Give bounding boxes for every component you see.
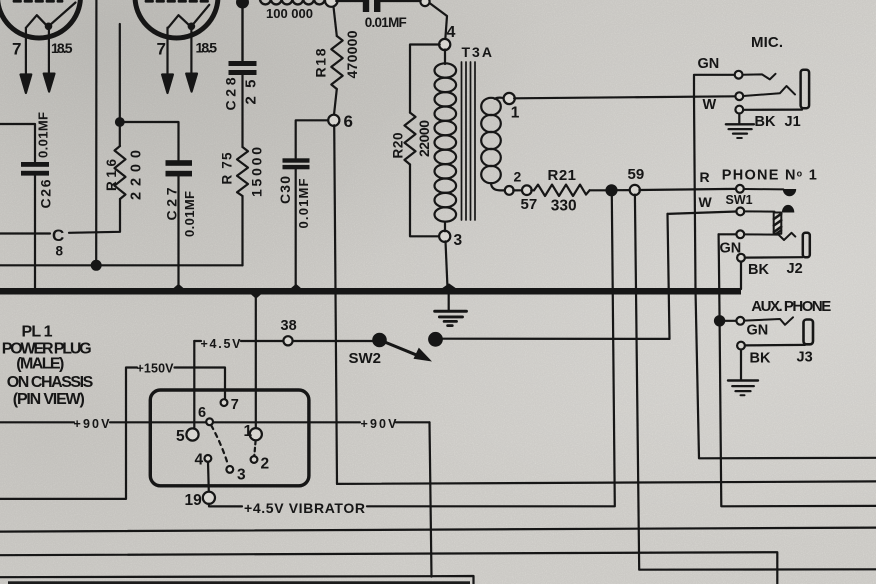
PHONE1 plug insulated shaft (hatched) [774, 213, 782, 234]
AUX jack J3 sleeve [804, 320, 814, 345]
tube V2 pin 7 lead with arrow [162, 28, 173, 93]
scan edge band at bottom [8, 581, 470, 584]
svg-text:1: 1 [511, 105, 520, 122]
svg-text:GN: GN [720, 241, 742, 257]
bus junction bump (C30 line) [290, 284, 302, 289]
PHONE1 GN wire to corner [719, 233, 737, 235]
svg-text:0.01MF: 0.01MF [296, 178, 311, 228]
MIC ground symbol [726, 114, 754, 139]
svg-text:GN: GN [747, 323, 769, 339]
bus junction bump (T3A node 3 line) [441, 283, 457, 289]
wire AVC line to connector C [0, 232, 50, 234]
resistor R21 [534, 185, 590, 196]
node 6 terminal circle [328, 115, 339, 126]
long wire bottom rail 4 with drop [0, 576, 474, 584]
svg-text:8: 8 [56, 243, 64, 258]
chassis ground symbol under bus [435, 295, 467, 326]
svg-text:470000: 470000 [344, 30, 360, 78]
svg-text:100 000: 100 000 [266, 6, 313, 21]
PHONE1 R contact arm [744, 188, 784, 190]
long wire to right edge (lower run 1) [337, 481, 876, 484]
wire node 1 to MIC W contact [514, 96, 735, 98]
svg-text:4: 4 [195, 451, 204, 468]
svg-text:GN: GN [698, 56, 720, 72]
wire +90V down to bottom rail [430, 422, 432, 576]
svg-text:SW2: SW2 [349, 350, 382, 367]
MIC W terminal circle [735, 92, 743, 100]
svg-text:2: 2 [261, 455, 270, 472]
tube V1 pin 7 lead with arrow [21, 28, 32, 93]
capacitor C30 [283, 158, 310, 169]
svg-text:+4.5V: +4.5V [201, 337, 242, 351]
wire node 4 to R20 [410, 45, 440, 113]
junction dot R16/C27 [116, 118, 124, 126]
svg-text:3: 3 [454, 232, 463, 249]
svg-text:15000: 15000 [249, 147, 265, 197]
wire tube V2 region down to R16 dot [119, 24, 121, 122]
transformer T3A primary winding [435, 50, 457, 232]
node 57 terminal circle [522, 185, 532, 195]
node 2 terminal circle [505, 186, 514, 195]
PHONE1 BK terminal circle [737, 254, 745, 262]
pin 1 circle [250, 428, 262, 440]
wire R20 to node 3 [410, 165, 440, 237]
svg-text:+150V: +150V [137, 361, 175, 375]
node 59 terminal circle [630, 185, 640, 195]
chassis ground bus (thick) [0, 288, 741, 295]
svg-text:ON CHASSIS: ON CHASSIS [7, 374, 94, 391]
svg-text:7: 7 [12, 40, 21, 59]
svg-text:0.01MF: 0.01MF [36, 112, 51, 158]
resistor R20 [405, 113, 416, 165]
PHONE1 jack J2 sleeve [803, 233, 810, 257]
wire R16 top to junction dot [119, 122, 121, 146]
tube V1 pin 18.5 lead with arrow [44, 27, 55, 92]
wire dot to C27 [120, 122, 179, 160]
svg-text:C: C [52, 226, 64, 245]
wire junction down to vibrator line [612, 195, 615, 505]
svg-text:BK: BK [748, 262, 769, 278]
wire R18 to node 6 [334, 89, 337, 115]
svg-text:SW1: SW1 [726, 193, 753, 207]
svg-text:R 75: R 75 [220, 152, 235, 184]
PHONE1 plug barrel contact (solid) [782, 205, 794, 213]
AUX GN contact arm [744, 317, 793, 325]
svg-text:C27: C27 [164, 187, 180, 220]
svg-text:PHONE No 1: PHONE No 1 [722, 168, 817, 184]
wire +4.5V rail [194, 340, 374, 342]
pin 3 circle [226, 466, 233, 473]
wire node1/mic junction down and out right [694, 97, 876, 459]
tube V1 filament [26, 3, 76, 29]
wire pin 19 to vibrator rail [209, 504, 242, 507]
tube V1 grid (dashed, cut at top) [14, 0, 62, 3]
svg-text:BK: BK [750, 350, 771, 366]
wire to C26 [0, 124, 35, 162]
wire node 3 to chassis bus [446, 241, 448, 288]
wire junction to node 59 [617, 189, 631, 191]
resistor R16 [115, 146, 126, 199]
svg-text:W: W [699, 194, 713, 210]
svg-text:57: 57 [521, 196, 538, 213]
svg-text:1: 1 [244, 423, 253, 440]
node junction dot on AVC wire [92, 261, 101, 270]
svg-text:C26: C26 [38, 179, 54, 208]
svg-text:5: 5 [176, 428, 185, 445]
MIC W contact arm [743, 86, 795, 96]
capacitor C27 [166, 160, 193, 176]
wire node 59 down and out right [635, 195, 876, 570]
svg-text:C30: C30 [277, 176, 293, 204]
wire SW2 contact to SW1 line [442, 338, 670, 340]
wire node to R18 [334, 7, 337, 36]
node terminal circle at top [325, 0, 338, 7]
svg-text:3: 3 [237, 466, 246, 483]
svg-text:0.01MF: 0.01MF [365, 15, 407, 30]
wire R21 to junction [590, 189, 607, 191]
svg-text:C28: C28 [223, 77, 239, 110]
svg-text:22000: 22000 [416, 120, 432, 157]
svg-text:6: 6 [344, 112, 353, 131]
svg-text:W: W [703, 97, 717, 113]
AUX ground symbol [728, 350, 758, 396]
PHONE1 W wire [668, 212, 737, 214]
wire node 59 to phone jack R contact [639, 189, 736, 190]
svg-text:PL 1: PL 1 [22, 324, 53, 341]
long wire bottom rail 2 [0, 528, 876, 532]
wire C28 to R75 [241, 75, 243, 147]
svg-text:4: 4 [447, 24, 456, 41]
wire +150V rail [0, 368, 225, 499]
resistor R75 [237, 147, 248, 196]
tube V2 envelope [135, 0, 218, 38]
wire node 2 to node 57 [513, 189, 522, 191]
svg-text:J1: J1 [785, 114, 801, 130]
svg-text:R: R [700, 169, 710, 185]
resistor 100000 (cut at top edge) [260, 0, 325, 4]
wire C27 to chassis bus [177, 176, 179, 291]
wire +90V rail [0, 421, 430, 423]
svg-text:J2: J2 [787, 261, 803, 277]
pin 19 circle [203, 492, 215, 504]
wire terminal to node 4 [430, 3, 448, 39]
wire R75 to AVC bus [241, 196, 243, 265]
svg-text:18.5: 18.5 [51, 40, 73, 56]
MIC BK terminal circle [735, 106, 743, 114]
node 38 terminal circle [283, 336, 292, 345]
svg-text:0.01MF: 0.01MF [182, 191, 197, 237]
svg-text:T3A: T3A [462, 44, 494, 60]
long wire bottom rail 3 with drop [0, 552, 777, 584]
svg-text:7: 7 [231, 397, 239, 413]
svg-text:(MALE): (MALE) [16, 356, 64, 373]
switch SW2 contact dot [429, 333, 442, 346]
AUX junction dot [715, 316, 724, 325]
dashed link pin6-pin3 [211, 425, 228, 465]
transformer T3A secondary winding [481, 98, 504, 191]
wire top cap to plate node [336, 0, 420, 2]
transformer T3A core [462, 62, 476, 220]
pin 5 circle [186, 428, 198, 440]
junction dot 57-line [607, 185, 617, 195]
pin 4 circle [205, 455, 212, 462]
tube V1 envelope [0, 0, 81, 38]
wire +4.5V down to pin 5 [193, 341, 195, 428]
wire C30 to chassis bus [295, 169, 297, 291]
wire AUX junction to GN [724, 320, 736, 322]
tube V2 filament [168, 5, 209, 29]
svg-text:J3: J3 [797, 349, 813, 365]
svg-text:18.5: 18.5 [196, 40, 218, 56]
svg-text:R20: R20 [391, 133, 406, 159]
pin 2 circle [251, 456, 258, 463]
resistor R18 [331, 36, 342, 89]
node 1 terminal circle [504, 93, 515, 104]
svg-text:7: 7 [157, 40, 166, 59]
switch SW2 lever arrow [381, 341, 432, 362]
PHONE1 GN contact arm [744, 233, 795, 240]
AUX BK terminal circle [737, 342, 745, 350]
switch SW2 pivot dot [373, 334, 385, 346]
PHONE1 R terminal circle [736, 185, 744, 193]
wire C26 to chassis bus [34, 176, 36, 291]
dashed link pin1-pin2 [254, 441, 255, 456]
AUX BK wire to sleeve [745, 344, 805, 347]
PHONE1 BK wire to sleeve [745, 256, 802, 259]
svg-text:AUX. PHONE: AUX. PHONE [751, 298, 831, 315]
svg-text:(PIN VIEW): (PIN VIEW) [13, 391, 85, 408]
node 4 terminal circle [439, 39, 450, 50]
svg-text:MIC.: MIC. [751, 34, 783, 51]
MIC GN contact arm [743, 74, 776, 80]
pin 6 circle [206, 418, 213, 425]
terminal circle at top edge [420, 0, 429, 6]
svg-text:R16: R16 [104, 159, 119, 191]
wire MIC GN branch [694, 75, 735, 97]
wire node 57 to R21 [531, 189, 534, 191]
PHONE1 BK wire to chassis bus [740, 262, 742, 289]
svg-text:BK: BK [755, 114, 776, 130]
AVC bus wire [0, 264, 243, 266]
coupling capacitor 0.01MF at top [363, 0, 381, 12]
wire bus to pin 1 [255, 295, 257, 428]
tube V2 grid (dashed, cut at top) [146, 0, 210, 3]
capacitor C28 [229, 61, 257, 75]
wire J2 sleeve-GN down through AUX junction and out right [719, 234, 876, 506]
MIC GN terminal circle [735, 71, 743, 79]
bus junction bump (pin 1 line, below) [250, 294, 262, 299]
svg-text:330: 330 [551, 198, 577, 215]
PHONE1 GN terminal circle [736, 230, 744, 238]
svg-text:2: 2 [514, 168, 522, 184]
svg-text:6: 6 [198, 405, 206, 421]
wire vibrator rail to 57 junction riser [367, 505, 615, 507]
wire between tubes down to junction [95, 0, 97, 263]
wire node 6 down across bus to lower run [334, 125, 337, 484]
svg-text:R21: R21 [548, 167, 577, 184]
svg-text:+90V: +90V [361, 417, 398, 431]
wire pin 4 to pin 19 [207, 462, 210, 492]
power plug PL1 outline [150, 390, 309, 486]
MIC BK wire to sleeve [743, 108, 802, 110]
svg-text:59: 59 [628, 166, 645, 183]
PHONE1 W/SW1 terminal circle [736, 208, 744, 216]
pin 7 circle [221, 399, 228, 406]
svg-text:38: 38 [281, 318, 297, 334]
AUX GN terminal circle [736, 317, 744, 325]
bus junction bump (C27 line) [173, 284, 185, 289]
svg-text:R18: R18 [312, 48, 328, 77]
svg-text:+90V: +90V [74, 417, 111, 431]
svg-text:19: 19 [185, 492, 203, 509]
PHONE1 SW1 contact arm [744, 210, 774, 212]
node 3 terminal circle [439, 231, 450, 242]
PHONE1 plug tip (solid) [783, 189, 796, 196]
svg-text:+4.5V VIBRATOR: +4.5V VIBRATOR [244, 500, 365, 516]
plate junction dot at top (tube V2) [237, 0, 248, 61]
wire connector to R16 bottom [69, 199, 120, 233]
capacitor C26 [21, 162, 49, 176]
MIC jack J1 sleeve [801, 70, 810, 109]
wire SW1 contact to SW2 [668, 214, 670, 339]
tube V2 pin 18.5 lead with arrow [186, 27, 197, 92]
wire node 6 to C30 [296, 120, 329, 158]
